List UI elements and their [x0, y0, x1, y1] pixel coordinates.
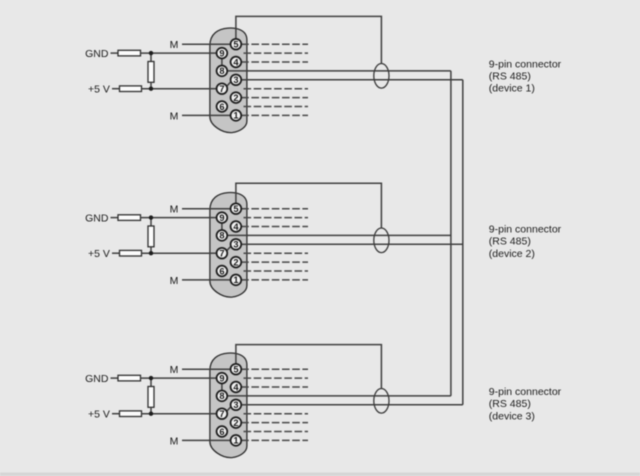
svg-text:7: 7 — [219, 249, 224, 259]
wire: +5 V inside connector to pin 7 (device 3) — [209, 413, 222, 415]
wire: pin 5 up through body (device 1) — [235, 28, 237, 44]
junction: GND node (device 2) — [149, 215, 153, 219]
svg-text:GND: GND — [85, 373, 109, 385]
wire: +5 V to resistor (device 2) — [112, 252, 120, 254]
svg-text:8: 8 — [219, 231, 224, 241]
pin 6 (device 2) — [217, 266, 228, 277]
wire: pin 8 line A to bus (device 2) — [222, 234, 451, 236]
pin 5 (device 2) — [231, 203, 242, 214]
pin 4 (device 1) — [231, 57, 242, 68]
wire: pin 8 line A to bus (device 1) — [222, 70, 451, 72]
svg-text:(RS 485): (RS 485) — [489, 236, 531, 248]
svg-text:2: 2 — [233, 93, 238, 103]
resistor: line termination (device 1) — [148, 62, 154, 83]
wire: pin 3 line B to bus (device 3) — [236, 404, 463, 406]
svg-text:4: 4 — [233, 382, 239, 392]
wire: dashed spare line from pin 7 (device 2) — [244, 252, 309, 254]
svg-text:3: 3 — [233, 240, 238, 250]
pin 3 (device 2) — [231, 239, 242, 250]
svg-text:5: 5 — [233, 365, 238, 375]
wire: pin 7 to pin 3 (device 2) — [226, 246, 232, 252]
pin 9 (device 2) — [217, 212, 228, 223]
wire: M to pin 1 (device 1) — [182, 114, 236, 116]
resistor: GND pull-down (device 1) — [118, 50, 141, 56]
wire: M to pin 5 (device 3) — [182, 368, 236, 370]
wire: dashed spare line from pin 1 (device 1) — [241, 114, 308, 116]
pin 8 (device 2) — [217, 230, 228, 241]
resistor: +5 V pull-up (device 3) — [120, 411, 142, 417]
wire: M to pin 5 (device 1) — [182, 43, 236, 45]
junction: +5 V node (device 2) — [149, 251, 153, 255]
wire: dashed spare line from pin 4 (device 3) — [241, 386, 308, 388]
svg-text:8: 8 — [219, 391, 224, 401]
pin 6 (device 3) — [217, 426, 228, 437]
svg-text:9: 9 — [219, 48, 224, 58]
wire: dashed spare line from pin 7 (device 3) — [244, 413, 309, 415]
wire: M to pin 1 (device 3) — [182, 439, 236, 441]
pin 1 (device 2) — [231, 275, 242, 286]
resistor: GND pull-down (device 2) — [118, 215, 141, 221]
svg-text:6: 6 — [219, 266, 224, 276]
pin 9 (device 3) — [217, 373, 228, 384]
svg-text:6: 6 — [219, 427, 224, 437]
svg-text:4: 4 — [233, 222, 239, 232]
cable bundle ellipse (device 3) — [374, 389, 389, 414]
svg-text:+5 V: +5 V — [88, 248, 110, 260]
wire: dashed spare line from pin 5 (device 1) — [241, 43, 308, 45]
wire: junction to termination resistor (device 3) — [150, 378, 152, 386]
wire: junction to termination resistor (device 1) — [150, 53, 152, 61]
pin 3 (device 3) — [231, 399, 242, 410]
wire: resistor to pin 9 (device 2) — [141, 217, 222, 219]
cable bundle ellipse (device 1) — [374, 64, 389, 89]
wire: junction to termination resistor (device 2) — [150, 218, 152, 226]
wire: dashed spare line from pin 1 (device 2) — [241, 279, 308, 281]
wire: +5 V to resistor (device 1) — [112, 88, 120, 90]
svg-text:GND: GND — [85, 48, 109, 60]
wire: pin 5 shield drop to cable (device 1) — [236, 16, 382, 63]
svg-text:GND: GND — [85, 213, 109, 225]
svg-text:(device 1): (device 1) — [489, 83, 535, 95]
wire: pin 9 to pin 8 (device 2) — [221, 218, 223, 236]
wire: dashed spare line from pin 2 (device 2) — [241, 261, 308, 263]
svg-text:M: M — [170, 364, 179, 376]
wire: resistor to pin 7 (device 2) — [142, 252, 222, 254]
pin 4 (device 2) — [231, 221, 242, 232]
wire: termination resistor to junction (device 2) — [150, 247, 152, 253]
svg-text:9-pin connector: 9-pin connector — [489, 58, 562, 70]
wire: GND to resistor (device 3) — [111, 377, 119, 379]
wire: pin 8 through body (device 1) — [222, 70, 248, 72]
pin 4 (device 3) — [231, 382, 242, 393]
wire: resistor to pin 7 (device 3) — [142, 413, 222, 415]
9-pin D-sub connector body (device 3) — [210, 353, 247, 458]
resistor: GND pull-down (device 3) — [118, 375, 141, 381]
wire: M top inside connector to pin 5 (device 3) — [209, 368, 236, 370]
pin 1 (device 3) — [231, 435, 242, 446]
pin 8 (device 3) — [217, 391, 228, 402]
wire: M bottom inside connector to pin 1 (device 3) — [209, 439, 236, 441]
svg-text:M: M — [170, 435, 179, 447]
pin 5 (device 1) — [231, 39, 242, 50]
pin 2 (device 3) — [231, 417, 242, 428]
resistor: line termination (device 2) — [148, 226, 154, 247]
wire: termination resistor to junction (device 1) — [150, 82, 152, 88]
9-pin D-sub connector body (device 2) — [210, 193, 247, 298]
wire: GND inside connector to pin 9 (device 1) — [209, 52, 222, 54]
wire: pin 5 up through body (device 2) — [235, 193, 237, 209]
svg-text:3: 3 — [233, 400, 238, 410]
resistor: +5 V pull-up (device 1) — [120, 86, 142, 92]
pin 2 (device 1) — [231, 92, 242, 103]
svg-text:(RS 485): (RS 485) — [489, 71, 531, 83]
wire: pin 7 to pin 3 (device 1) — [226, 81, 232, 87]
svg-text:1: 1 — [233, 111, 238, 121]
wire: pin 3 line B to bus (device 1) — [236, 79, 463, 81]
wire: +5 V to resistor (device 3) — [112, 413, 120, 415]
wire: dashed spare line from pin 1 (device 3) — [241, 439, 308, 441]
svg-text:9-pin connector: 9-pin connector — [489, 223, 562, 235]
wire: GND inside connector to pin 9 (device 3) — [209, 377, 222, 379]
wire: pin 8 through body (device 3) — [222, 395, 248, 397]
wire: pin 3 through body (device 1) — [236, 79, 248, 81]
svg-text:7: 7 — [219, 84, 224, 94]
wire: dashed spare line from pin 6 (device 2) — [244, 270, 309, 272]
wire: dashed spare line from pin 4 (device 1) — [241, 61, 308, 63]
svg-text:M: M — [170, 204, 179, 216]
wire: resistor to pin 9 (device 3) — [141, 377, 222, 379]
wire: M top inside connector to pin 5 (device 2) — [209, 208, 236, 210]
wire: M top inside connector to pin 5 (device 1) — [209, 43, 236, 45]
wire: pin 9 to pin 8 (device 1) — [221, 53, 223, 71]
wire: dashed spare line from pin 9 (device 1) — [244, 52, 309, 54]
svg-text:(RS 485): (RS 485) — [489, 398, 531, 410]
wire: GND to resistor (device 1) — [111, 52, 119, 54]
wire: dashed spare line from pin 5 (device 3) — [241, 368, 308, 370]
wire: pin 3 through body (device 2) — [236, 243, 248, 245]
wire: dashed spare line from pin 9 (device 3) — [244, 377, 309, 379]
wire: pin 3 line B to bus (device 2) — [236, 243, 463, 245]
svg-text:(device 2): (device 2) — [489, 248, 535, 260]
wire: dashed spare line from pin 5 (device 2) — [241, 208, 308, 210]
svg-text:+5 V: +5 V — [88, 409, 110, 421]
wire: pin 7 to pin 3 (device 3) — [226, 406, 232, 412]
svg-text:7: 7 — [219, 409, 224, 419]
svg-text:9: 9 — [219, 373, 224, 383]
svg-text:9-pin connector: 9-pin connector — [489, 386, 562, 398]
wire: resistor to pin 7 (device 1) — [142, 88, 222, 90]
wire: GND inside connector to pin 9 (device 2) — [209, 217, 222, 219]
svg-text:5: 5 — [233, 40, 238, 50]
svg-text:4: 4 — [233, 57, 239, 67]
bottom page edge bar — [0, 473, 640, 476]
wire: pin 5 shield drop to cable (device 3) — [236, 345, 382, 389]
wire: M bottom inside connector to pin 1 (device 1) — [209, 114, 236, 116]
svg-text:1: 1 — [233, 275, 238, 285]
svg-text:9: 9 — [219, 213, 224, 223]
wire: dashed spare line from pin 2 (device 3) — [241, 422, 308, 424]
resistor: +5 V pull-up (device 2) — [120, 250, 142, 256]
junction: +5 V node (device 3) — [149, 412, 153, 416]
wire: resistor to pin 9 (device 1) — [141, 52, 222, 54]
wire: vertical bus line B (pin 3 net) — [462, 80, 464, 405]
wire: pin 8 through body (device 2) — [222, 234, 248, 236]
junction: GND node (device 1) — [149, 51, 153, 55]
svg-text:M: M — [170, 39, 179, 51]
svg-text:+5 V: +5 V — [88, 84, 110, 96]
wire: GND to resistor (device 2) — [111, 217, 119, 219]
pin 9 (device 1) — [217, 48, 228, 59]
wire: pin 3 through body (device 3) — [236, 404, 248, 406]
svg-text:M: M — [170, 275, 179, 287]
wire: dashed spare line from pin 9 (device 2) — [244, 217, 309, 219]
wire: M to pin 5 (device 2) — [182, 208, 236, 210]
svg-text:8: 8 — [219, 66, 224, 76]
pin 6 (device 1) — [217, 101, 228, 112]
junction: +5 V node (device 1) — [149, 87, 153, 91]
wire: pin 9 to pin 8 (device 3) — [221, 378, 223, 396]
wire: vertical bus line A (pin 8 net) — [450, 71, 452, 396]
wire: M bottom inside connector to pin 1 (device 2) — [209, 279, 236, 281]
wire: dashed spare line from pin 7 (device 1) — [244, 88, 309, 90]
9-pin D-sub connector body (device 1) — [210, 28, 247, 133]
wire: dashed spare line from pin 4 (device 2) — [241, 226, 308, 228]
svg-text:5: 5 — [233, 204, 238, 214]
pin 3 (device 1) — [231, 74, 242, 85]
wire: dashed spare line from pin 6 (device 3) — [244, 431, 309, 433]
pin 7 (device 3) — [217, 408, 228, 419]
pin 7 (device 2) — [217, 248, 228, 259]
wire: M to pin 1 (device 2) — [182, 279, 236, 281]
pin 5 (device 3) — [231, 364, 242, 375]
wire: +5 V inside connector to pin 7 (device 1) — [209, 88, 222, 90]
resistor: line termination (device 3) — [148, 387, 154, 408]
svg-text:6: 6 — [219, 102, 224, 112]
svg-text:M: M — [170, 110, 179, 122]
wire: pin 5 up through body (device 3) — [235, 353, 237, 369]
svg-text:2: 2 — [233, 257, 238, 267]
svg-text:3: 3 — [233, 75, 238, 85]
pin 1 (device 1) — [231, 110, 242, 121]
wire: dashed spare line from pin 2 (device 1) — [241, 97, 308, 99]
wire: pin 5 shield drop to cable (device 2) — [236, 183, 382, 228]
junction: GND node (device 3) — [149, 376, 153, 380]
pin 2 (device 2) — [231, 257, 242, 268]
svg-text:1: 1 — [233, 436, 238, 446]
pin 8 (device 1) — [217, 66, 228, 77]
wire: dashed spare line from pin 6 (device 1) — [244, 106, 309, 108]
svg-text:2: 2 — [233, 418, 238, 428]
pin 7 (device 1) — [217, 83, 228, 94]
wire: pin 8 line A to bus (device 3) — [222, 395, 451, 397]
cable bundle ellipse (device 2) — [374, 228, 389, 253]
svg-text:(device 3): (device 3) — [489, 410, 535, 422]
wire: +5 V inside connector to pin 7 (device 2) — [209, 252, 222, 254]
wire: termination resistor to junction (device 3) — [150, 407, 152, 413]
